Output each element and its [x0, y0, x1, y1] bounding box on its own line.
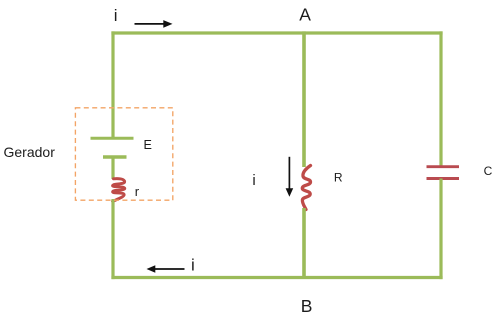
current arrow top (rightward)	[135, 23, 165, 25]
wire left mid (battery to coil r)	[111, 157, 114, 179]
wire middle lower (inductor R to B)	[302, 208, 306, 278]
inductor r (scribble coil)	[113, 179, 125, 202]
svg-text:R: R	[334, 171, 343, 185]
wire left upper (into battery)	[111, 31, 114, 138]
svg-text:i: i	[191, 255, 195, 274]
battery E short plate	[103, 155, 127, 158]
capacitor C bottom plate	[427, 177, 460, 180]
battery E long plate	[91, 137, 134, 140]
wire middle upper (A to inductor R)	[302, 31, 306, 167]
svg-text:A: A	[299, 5, 311, 25]
current arrow middle (downward)	[288, 157, 290, 189]
wire top (node A rail)	[111, 31, 442, 34]
inductor R (scribble coil)	[302, 166, 310, 210]
current arrow bottom (leftward)	[155, 268, 185, 270]
svg-text:r: r	[135, 184, 140, 199]
svg-text:E: E	[144, 138, 152, 152]
wire right upper (A to capacitor)	[439, 31, 442, 166]
svg-text:C: C	[484, 164, 493, 178]
wire bottom (node B rail)	[111, 276, 442, 279]
svg-text:i: i	[252, 172, 255, 189]
generator dashed enclosure box	[75, 108, 172, 200]
wire left lower (coil r to bottom rail)	[111, 199, 114, 279]
wire right lower (capacitor to B)	[439, 179, 442, 280]
svg-text:i: i	[114, 6, 118, 25]
svg-text:B: B	[301, 296, 313, 316]
svg-text:Gerador: Gerador	[4, 144, 56, 160]
capacitor C top plate	[427, 165, 460, 168]
